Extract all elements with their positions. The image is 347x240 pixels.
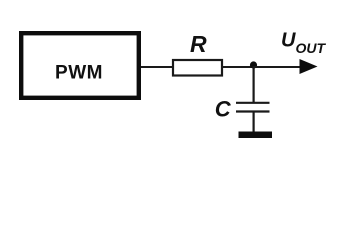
- svg-text:C: C: [215, 97, 232, 122]
- node A (junction dot): [250, 61, 257, 68]
- svg-text:R: R: [190, 31, 207, 57]
- resistor R: [173, 60, 222, 76]
- wire node to output arrow: [253, 66, 301, 68]
- wire PWM to R: [141, 66, 173, 68]
- svg-text:PWM: PWM: [55, 63, 103, 84]
- ground: [239, 132, 273, 139]
- capacitor C: [236, 103, 270, 112]
- wire capacitor to ground: [253, 112, 255, 134]
- svg-text:UOUT: UOUT: [281, 30, 326, 57]
- output arrow: [300, 59, 318, 74]
- wire node to capacitor: [253, 66, 255, 102]
- wire R to node: [223, 66, 258, 68]
- PWM block U1: [21, 33, 139, 98]
